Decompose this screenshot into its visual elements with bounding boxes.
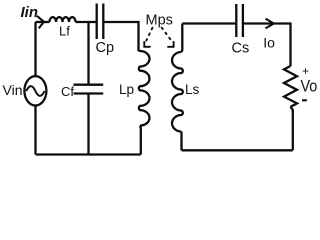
svg-text:Iin: Iin bbox=[21, 4, 39, 21]
mutual inductance arrow left (dashed) bbox=[146, 27, 153, 41]
wire: Cp to Lp corner bbox=[104, 22, 139, 51]
wire: primary top left segment bbox=[36, 21, 50, 23]
resistor Vo load bbox=[284, 66, 297, 107]
wire: Vin branch bottom bbox=[34, 105, 36, 154]
svg-text:Vin: Vin bbox=[3, 82, 23, 98]
svg-text:Cs: Cs bbox=[232, 41, 250, 57]
wire: Cs to output corner bbox=[244, 24, 291, 67]
svg-text:Mps: Mps bbox=[146, 12, 173, 28]
wire: Ls bottom feed bbox=[180, 132, 182, 151]
sine wave bbox=[26, 86, 44, 96]
wire: Lp bottom feed bbox=[139, 126, 142, 155]
svg-text:Lp: Lp bbox=[119, 82, 134, 97]
capacitor Cp bbox=[97, 4, 104, 40]
capacitor Cs bbox=[236, 4, 243, 37]
wire: secondary bottom bbox=[182, 149, 293, 151]
svg-text:Ls: Ls bbox=[185, 82, 200, 97]
svg-text:Io: Io bbox=[263, 35, 275, 51]
inductor Lp bbox=[139, 51, 150, 126]
mutual inductance arrow right (dashed) bbox=[161, 27, 172, 41]
wire: load bottom feed bbox=[291, 107, 293, 151]
svg-text:Lf: Lf bbox=[59, 24, 70, 39]
inductor Lf bbox=[50, 17, 76, 22]
svg-text:+: + bbox=[302, 64, 309, 78]
wire: Lf to Cp bbox=[76, 21, 97, 23]
source Vin bbox=[24, 76, 46, 105]
svg-text:Cf: Cf bbox=[61, 84, 74, 99]
wire: secondary top (Ls to Cs) bbox=[182, 22, 235, 24]
wire: Vin branch top bbox=[34, 22, 36, 76]
svg-text:Vo: Vo bbox=[301, 78, 318, 96]
wire: Cf branch bottom bbox=[87, 94, 89, 155]
wire: Cf branch top bbox=[87, 22, 89, 85]
inductor Ls bbox=[172, 52, 183, 132]
wire: Ls top feed bbox=[180, 24, 183, 53]
capacitor Cf bbox=[74, 85, 104, 94]
arrow Iin head bbox=[37, 16, 44, 29]
svg-text:Cp: Cp bbox=[96, 40, 115, 56]
label minus bbox=[302, 99, 307, 101]
wire: primary bottom bbox=[36, 153, 141, 155]
arrow Io head bbox=[266, 19, 274, 29]
